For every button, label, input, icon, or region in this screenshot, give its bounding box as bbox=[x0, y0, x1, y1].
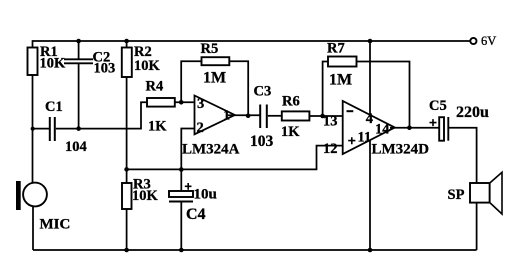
node R2 top rail bbox=[124, 39, 129, 44]
svg-text:R5: R5 bbox=[201, 41, 219, 57]
capacitor C5 bbox=[439, 117, 444, 141]
wire speaker bottom bbox=[476, 203, 478, 250]
resistor R5 bbox=[202, 57, 230, 65]
wire top supply rail bbox=[33, 40, 471, 42]
wire R2 column top bbox=[126, 41, 128, 48]
node R2/R3/ref bbox=[124, 167, 129, 172]
plus sign non-inverting input U2 bbox=[348, 137, 355, 144]
wire R5 right bbox=[229, 61, 248, 115]
node A output bbox=[246, 113, 251, 118]
capacitor C1 bbox=[50, 117, 55, 141]
wire C2 column bbox=[78, 41, 80, 129]
polarity + mark C4 bbox=[185, 183, 192, 190]
wire pin2 bbox=[181, 129, 194, 170]
wire bottom ground rail bbox=[33, 249, 477, 251]
wire R5 left bbox=[181, 61, 201, 102]
svg-text:103: 103 bbox=[94, 60, 116, 76]
svg-text:MIC: MIC bbox=[40, 217, 71, 233]
svg-text:C5: C5 bbox=[429, 98, 447, 114]
wire R6 to pin13 bbox=[309, 115, 342, 117]
svg-text:10K: 10K bbox=[134, 58, 161, 74]
node C4 ground bbox=[179, 248, 184, 253]
svg-text:R7: R7 bbox=[327, 41, 345, 57]
op-amp U2 LM324D bbox=[343, 101, 395, 154]
wire left column bottom bbox=[32, 206, 34, 250]
svg-text:103: 103 bbox=[250, 133, 274, 150]
node R3 ground bbox=[124, 248, 129, 253]
svg-text:4: 4 bbox=[366, 111, 373, 127]
resistor R1 bbox=[28, 48, 38, 76]
node pin11 ground bbox=[368, 248, 373, 253]
wire C1 input bbox=[33, 128, 50, 130]
speaker SP bbox=[470, 183, 490, 203]
svg-text:1M: 1M bbox=[329, 71, 352, 88]
node pin4 top rail bbox=[368, 39, 373, 44]
wire op-amp A output bbox=[228, 114, 260, 116]
node C2/C1 wire bbox=[76, 126, 81, 131]
wire R3 to ground bbox=[126, 209, 128, 250]
svg-text:13: 13 bbox=[323, 113, 338, 129]
svg-text:1K: 1K bbox=[281, 124, 300, 140]
node pin2/C4/ref bbox=[179, 167, 184, 172]
wire R4 to op-amp pin3 bbox=[175, 101, 195, 103]
node C2 top rail bbox=[76, 39, 81, 44]
svg-text:11: 11 bbox=[358, 130, 372, 146]
svg-text:10K: 10K bbox=[132, 188, 159, 204]
svg-text:3: 3 bbox=[197, 96, 204, 112]
svg-text:220u: 220u bbox=[456, 104, 489, 121]
svg-text:R4: R4 bbox=[146, 79, 164, 95]
node R4/R5/pin3 bbox=[179, 100, 184, 105]
wire ref node to pin12 bbox=[127, 146, 343, 170]
microphone MIC bbox=[16, 181, 21, 210]
wire R2 to node bbox=[126, 77, 128, 183]
svg-text:R6: R6 bbox=[282, 94, 300, 110]
node D output bbox=[407, 126, 412, 131]
svg-text:C3: C3 bbox=[254, 84, 272, 100]
svg-text:6V: 6V bbox=[481, 34, 496, 48]
node mic/C1 bbox=[31, 127, 35, 131]
capacitor C2 bbox=[64, 59, 93, 63]
svg-text:SP: SP bbox=[448, 187, 465, 203]
wire C5 to speaker bbox=[449, 128, 477, 183]
op-amp U1 LM324A bbox=[195, 96, 235, 135]
svg-text:10u: 10u bbox=[194, 187, 217, 203]
svg-text:12: 12 bbox=[323, 141, 338, 157]
svg-text:104: 104 bbox=[65, 139, 87, 155]
resistor R6 bbox=[282, 111, 310, 120]
resistor R2 bbox=[122, 48, 132, 78]
svg-text:LM324D: LM324D bbox=[372, 141, 430, 157]
svg-text:1K: 1K bbox=[148, 118, 167, 134]
wire R7 right bbox=[357, 62, 410, 128]
wire C4 top bbox=[180, 170, 182, 192]
svg-text:2: 2 bbox=[197, 120, 204, 136]
wire left column mid bbox=[32, 75, 34, 183]
resistor R3 bbox=[122, 183, 132, 209]
wire C3 to R6 bbox=[268, 115, 282, 117]
wire R7 left bbox=[323, 62, 328, 117]
resistor R4 bbox=[147, 98, 175, 107]
wire pin4 bbox=[369, 41, 371, 117]
resistor R7 bbox=[328, 57, 357, 67]
svg-text:LM324A: LM324A bbox=[182, 141, 240, 157]
minus sign inverting input U2 bbox=[347, 110, 354, 112]
svg-text:C1: C1 bbox=[45, 99, 63, 115]
svg-text:10K: 10K bbox=[40, 55, 67, 71]
wire pin11 bbox=[369, 140, 371, 250]
node R6/R7/pin13 bbox=[320, 114, 325, 119]
svg-text:14: 14 bbox=[375, 121, 390, 137]
capacitor C4 bbox=[169, 191, 193, 197]
wire op-amp D output bbox=[390, 127, 439, 129]
svg-text:C4: C4 bbox=[186, 206, 206, 223]
capacitor C3 bbox=[260, 105, 267, 129]
wire C1 to R4 bbox=[56, 102, 147, 128]
wire C4 bottom bbox=[180, 202, 182, 251]
polarity + mark C5 bbox=[430, 119, 437, 126]
wire left column top bbox=[32, 40, 34, 47]
svg-text:1M: 1M bbox=[203, 70, 226, 87]
terminal 6V bbox=[470, 38, 476, 44]
